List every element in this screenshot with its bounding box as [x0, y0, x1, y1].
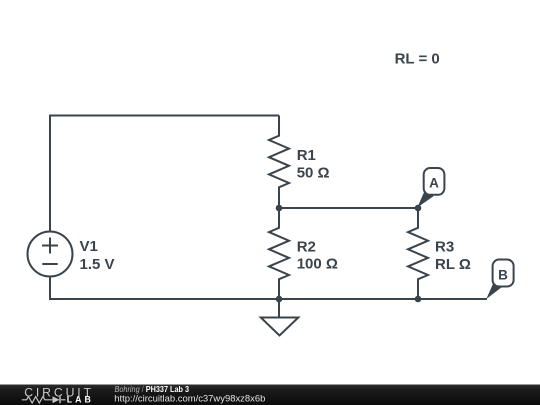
junction node ground rail — [276, 296, 283, 303]
voltage source V1 — [28, 232, 73, 277]
svg-text:R1: R1 — [297, 147, 316, 164]
svg-text:100 Ω: 100 Ω — [297, 256, 338, 273]
svg-text:RL Ω: RL Ω — [435, 256, 471, 273]
svg-text:R3: R3 — [435, 239, 454, 256]
svg-text:RL = 0: RL = 0 — [395, 51, 440, 68]
footer bar — [0, 385, 540, 405]
svg-text:LAB: LAB — [67, 394, 94, 404]
node flag A — [417, 168, 444, 207]
junction node R3 bottom — [415, 296, 422, 303]
R1 value label — [297, 147, 330, 181]
resistor R3 — [408, 208, 428, 299]
resistor R1 — [269, 116, 289, 209]
svg-text:A: A — [429, 176, 439, 191]
ground — [261, 299, 299, 336]
CircuitLab logo diode triangle — [53, 396, 60, 403]
svg-text:R2: R2 — [297, 238, 316, 255]
wire left lower (V1 minus down to bottom rail) — [49, 277, 51, 301]
svg-text:50 Ω: 50 Ω — [297, 164, 330, 181]
wire middle (R1/R2 node to R3 top) — [279, 207, 418, 209]
resistor R2 — [269, 208, 289, 299]
svg-text:V1: V1 — [80, 238, 98, 255]
CircuitLab logo resistor-diode glyph — [22, 396, 66, 403]
R2 value label — [297, 238, 338, 272]
node flag B — [486, 260, 513, 300]
svg-text:1.5 V: 1.5 V — [80, 256, 115, 273]
svg-text:B: B — [498, 268, 508, 283]
R3 value label — [435, 239, 471, 274]
junction node R1/R2 — [276, 205, 283, 212]
wire bottom rail — [49, 298, 487, 300]
junction node R3 top — [415, 205, 422, 212]
V1 value label — [80, 238, 115, 273]
wire left upper (top rail down to V1) — [49, 115, 51, 232]
svg-text:http://circuitlab.com/c37wy98x: http://circuitlab.com/c37wy98xz8x6b — [114, 393, 265, 404]
wire top (V1 plus to R1 top) — [50, 115, 279, 117]
